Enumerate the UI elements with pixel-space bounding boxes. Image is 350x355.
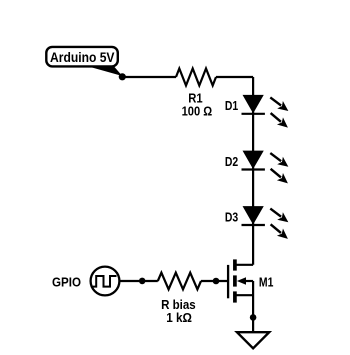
svg-text:R1: R1 — [188, 91, 202, 105]
svg-text:D1: D1 — [225, 99, 238, 113]
svg-text:M1: M1 — [259, 276, 274, 290]
svg-text:Arduino 5V: Arduino 5V — [50, 49, 115, 65]
svg-text:100 Ω: 100 Ω — [182, 105, 213, 119]
svg-text:D3: D3 — [225, 210, 238, 224]
svg-text:1 kΩ: 1 kΩ — [166, 311, 192, 325]
svg-text:D2: D2 — [225, 155, 238, 169]
svg-text:GPIO: GPIO — [52, 276, 81, 290]
